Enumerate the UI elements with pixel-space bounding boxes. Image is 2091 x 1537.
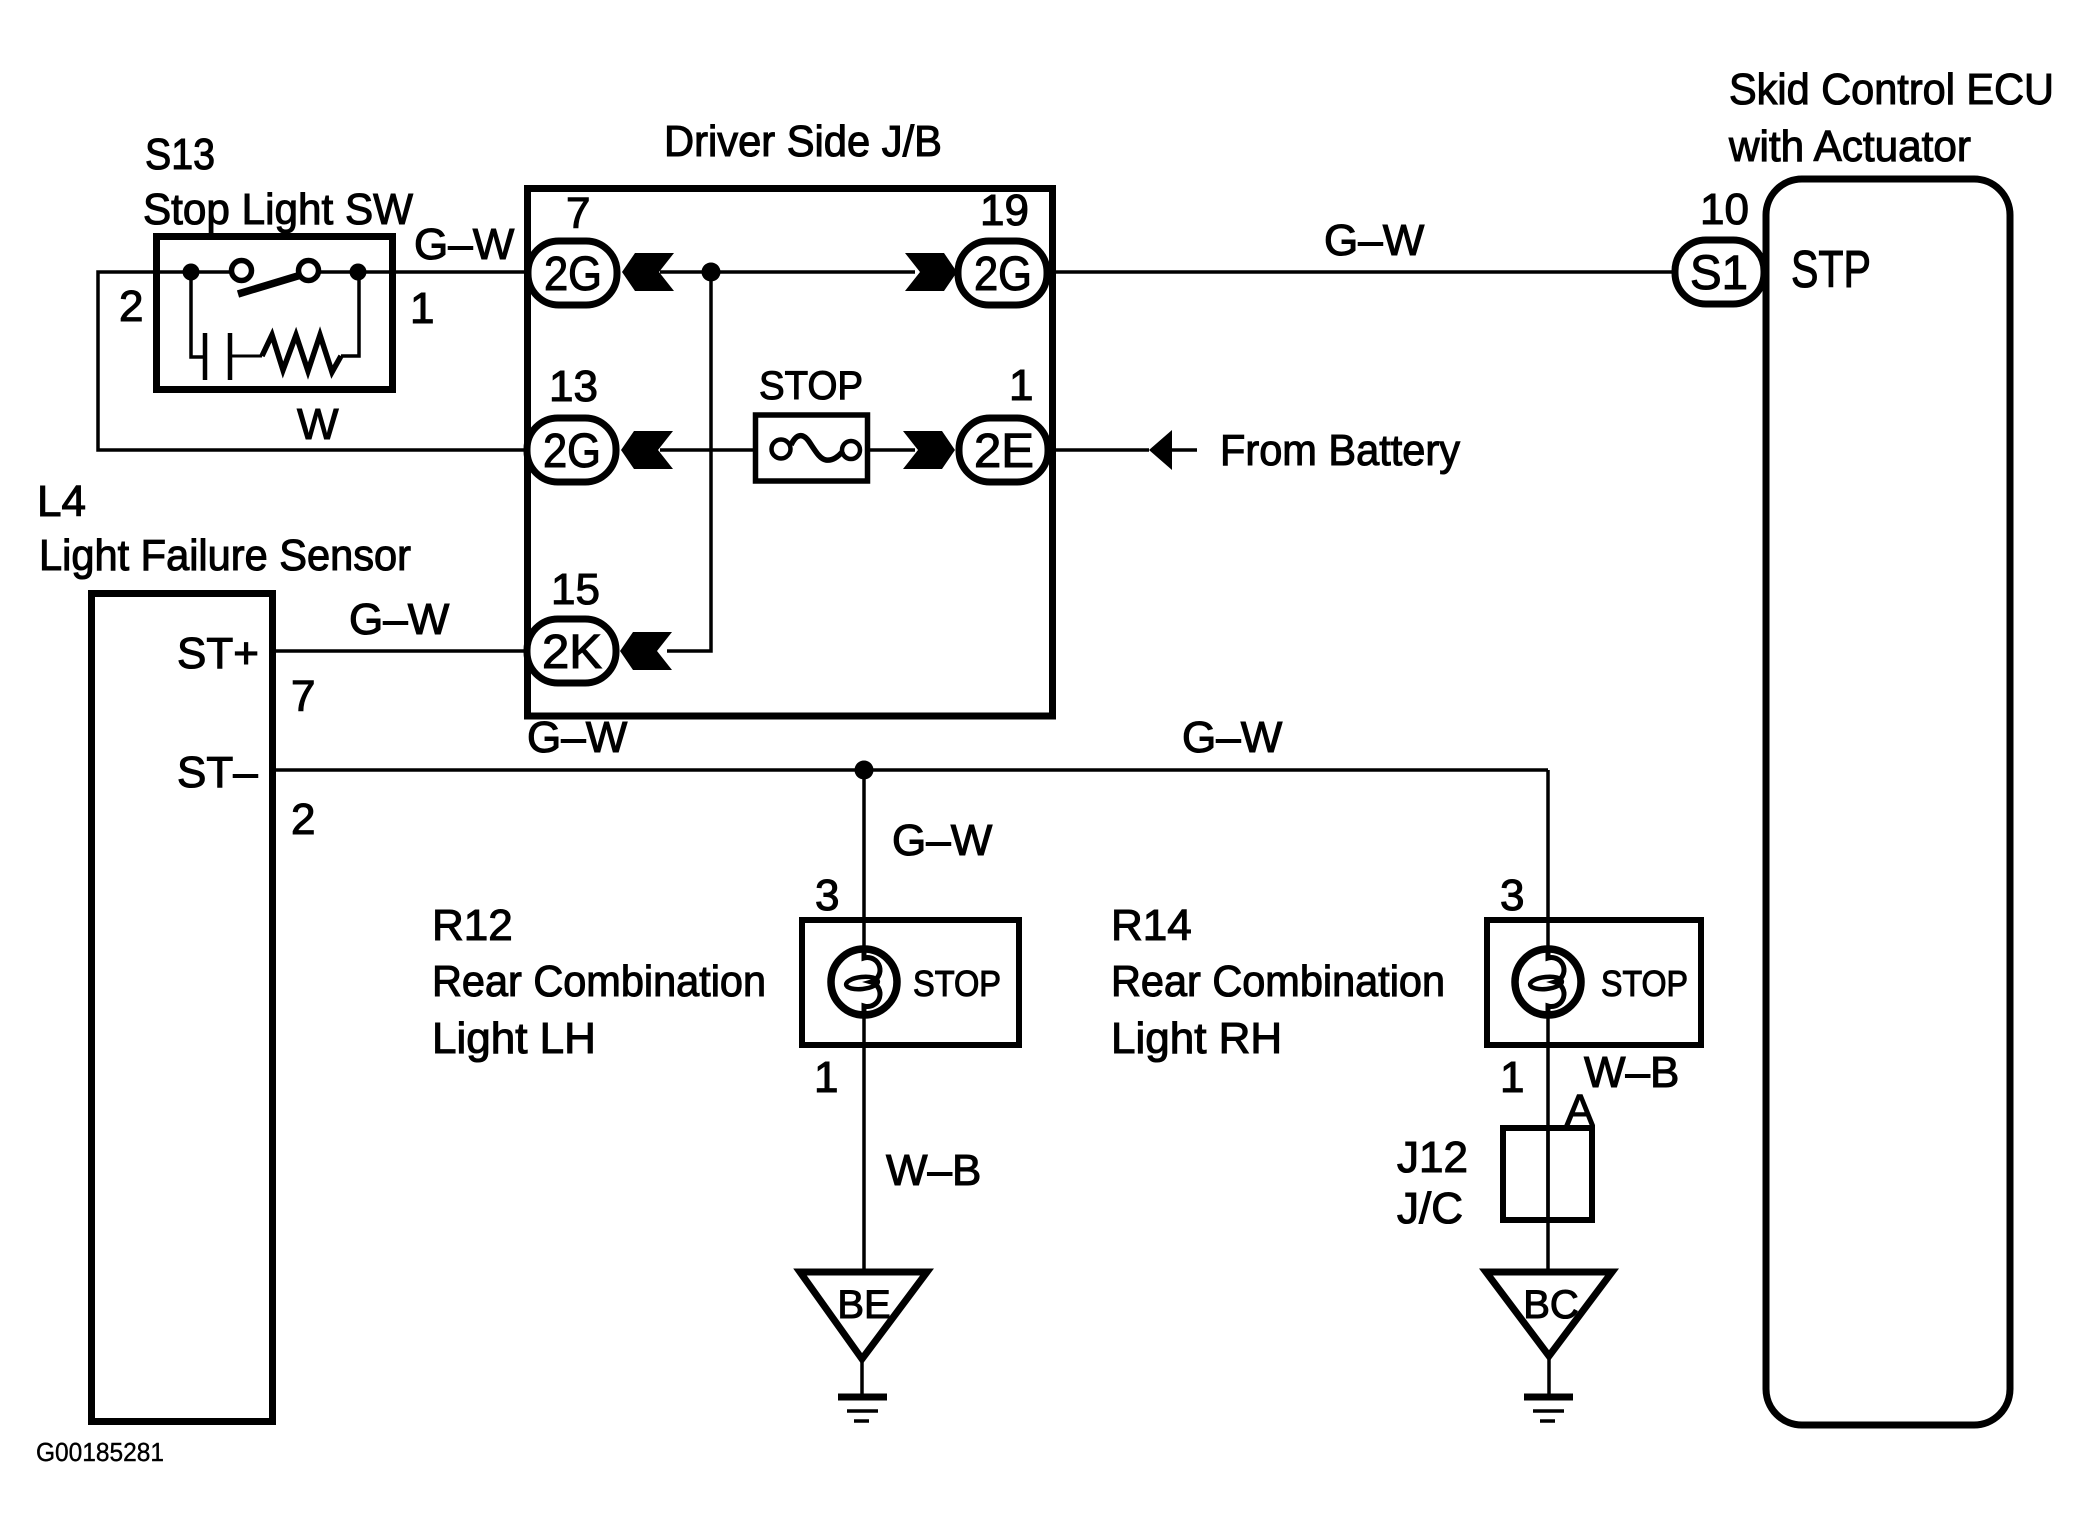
svg-text:2: 2 bbox=[119, 282, 143, 331]
arrow into 2E bbox=[903, 431, 955, 469]
svg-text:STP: STP bbox=[1791, 241, 1871, 299]
svg-text:1: 1 bbox=[1009, 361, 1033, 410]
lamp bulb R14 bbox=[1515, 949, 1581, 1015]
arrow into 2K bbox=[620, 632, 672, 670]
svg-text:J12: J12 bbox=[1397, 1133, 1468, 1182]
svg-text:Stop Light SW: Stop Light SW bbox=[143, 185, 413, 234]
wire 2G19 to S1 bbox=[1048, 270, 1676, 274]
svg-text:2G: 2G bbox=[974, 248, 1032, 301]
svg-text:G–W: G–W bbox=[892, 816, 993, 865]
svg-text:2E: 2E bbox=[974, 425, 1034, 478]
label R14 Rear Combination Light RH bbox=[1111, 901, 1445, 1063]
ground triangle BC bbox=[1486, 1272, 1612, 1356]
arrow From Battery bbox=[1149, 430, 1172, 470]
svg-text:Driver Side J/B: Driver Side J/B bbox=[664, 117, 942, 166]
node junction ST- branch bbox=[855, 761, 874, 780]
svg-text:BE: BE bbox=[837, 1283, 890, 1327]
lamp box R14 bbox=[1487, 920, 1701, 1045]
fuse STOP bbox=[756, 415, 868, 481]
wire ST- main run bbox=[272, 768, 1548, 772]
svg-text:7: 7 bbox=[566, 189, 590, 238]
svg-text:with Actuator: with Actuator bbox=[1728, 122, 1971, 171]
svg-text:J/C: J/C bbox=[1397, 1184, 1463, 1233]
connector 2G pin 7 bbox=[528, 241, 617, 305]
wire branch down to R14 bbox=[1546, 770, 1550, 955]
svg-text:R14: R14 bbox=[1111, 901, 1192, 950]
svg-text:15: 15 bbox=[551, 565, 600, 614]
svg-text:R12: R12 bbox=[432, 901, 513, 950]
svg-text:L4: L4 bbox=[37, 477, 86, 526]
ground symbol BC bbox=[1524, 1356, 1573, 1421]
wire 2E to From Battery bbox=[1048, 448, 1149, 452]
wire row 13 inside J/B bbox=[660, 448, 760, 452]
svg-text:G–W: G–W bbox=[527, 713, 628, 762]
svg-text:2K: 2K bbox=[542, 626, 602, 679]
label J12 J/C bbox=[1397, 1133, 1468, 1233]
ground triangle BE bbox=[800, 1272, 927, 1359]
arrow into 2G7 bbox=[622, 253, 674, 291]
svg-text:ST+: ST+ bbox=[177, 629, 259, 678]
svg-text:BC: BC bbox=[1523, 1283, 1579, 1327]
svg-text:S13: S13 bbox=[145, 130, 215, 179]
resistor in S13 bbox=[232, 280, 359, 372]
svg-text:10: 10 bbox=[1700, 185, 1749, 234]
switch S13 box bbox=[157, 237, 393, 390]
svg-text:Light LH: Light LH bbox=[432, 1014, 596, 1063]
label L4 Light Failure Sensor bbox=[37, 477, 411, 580]
label S13 bbox=[143, 130, 413, 234]
svg-text:ST–: ST– bbox=[177, 748, 258, 797]
junction connector J12 J/C box bbox=[1503, 1128, 1592, 1220]
connector 2G pin 19 bbox=[958, 241, 1047, 305]
svg-text:3: 3 bbox=[815, 871, 839, 920]
node junction row 7 bbox=[702, 263, 721, 282]
svg-text:STOP: STOP bbox=[913, 963, 1001, 1004]
svg-text:Rear Combination: Rear Combination bbox=[432, 957, 766, 1006]
svg-text:7: 7 bbox=[291, 672, 315, 721]
svg-text:Rear Combination: Rear Combination bbox=[1111, 957, 1445, 1006]
arrow into 2G13 bbox=[621, 431, 673, 469]
wire branch down to R12 bbox=[862, 770, 866, 955]
label Skid Control ECU with Actuator bbox=[1728, 65, 2054, 171]
lamp bulb R12 bbox=[831, 949, 897, 1015]
junction block Driver Side J/B box bbox=[528, 189, 1053, 717]
svg-text:G00185281: G00185281 bbox=[36, 1437, 164, 1467]
switch S13 internals bbox=[157, 261, 392, 295]
svg-text:S1: S1 bbox=[1690, 247, 1748, 300]
svg-text:From Battery: From Battery bbox=[1220, 426, 1460, 475]
svg-text:1: 1 bbox=[1500, 1053, 1524, 1102]
svg-text:W–B: W–B bbox=[1584, 1048, 1679, 1097]
ground symbol BE bbox=[838, 1359, 887, 1421]
svg-text:G–W: G–W bbox=[1324, 216, 1425, 265]
svg-text:STOP: STOP bbox=[759, 364, 863, 408]
svg-text:1: 1 bbox=[814, 1053, 838, 1102]
connector 2G pin 13 bbox=[527, 418, 616, 482]
svg-text:Skid Control ECU: Skid Control ECU bbox=[1729, 65, 2054, 114]
svg-text:3: 3 bbox=[1500, 871, 1524, 920]
svg-text:G–W: G–W bbox=[414, 220, 515, 269]
wire ST+ to 2K bbox=[272, 649, 530, 653]
battery symbol in S13 bbox=[191, 280, 230, 380]
ECU box Skid Control ECU with Actuator bbox=[1766, 179, 2010, 1425]
L4 box Light Failure Sensor bbox=[92, 594, 273, 1422]
svg-text:W: W bbox=[297, 400, 339, 449]
connector S1 pin 10 bbox=[1675, 240, 1764, 304]
wire pin1 S13 to 2G7 bbox=[392, 270, 530, 274]
svg-text:G–W: G–W bbox=[349, 595, 450, 644]
wire branch junction to 2K bbox=[667, 272, 711, 651]
svg-text:Light Failure Sensor: Light Failure Sensor bbox=[39, 531, 411, 580]
arrow into 2G19 bbox=[905, 253, 957, 291]
svg-text:W–B: W–B bbox=[886, 1146, 981, 1195]
svg-text:STOP: STOP bbox=[1601, 963, 1688, 1004]
wire R12 to BE ground bbox=[862, 1008, 866, 1272]
connector 2E pin 1 bbox=[959, 418, 1048, 482]
connector 2K pin 15 bbox=[527, 619, 616, 683]
svg-text:Light RH: Light RH bbox=[1111, 1014, 1282, 1063]
svg-text:13: 13 bbox=[549, 362, 598, 411]
svg-text:G–W: G–W bbox=[1182, 713, 1283, 762]
wire through J12 bbox=[1546, 1128, 1550, 1220]
wire pin2 S13 W route bbox=[98, 272, 530, 450]
svg-text:2: 2 bbox=[291, 795, 315, 844]
svg-text:2G: 2G bbox=[544, 248, 602, 301]
wire R14 to BC ground bbox=[1546, 1008, 1550, 1272]
lamp box R12 bbox=[802, 920, 1019, 1045]
svg-text:2G: 2G bbox=[543, 425, 601, 478]
label R12 Rear Combination Light LH bbox=[432, 901, 766, 1063]
wire row 7 inside J/B bbox=[660, 270, 915, 274]
svg-text:1: 1 bbox=[410, 284, 434, 333]
svg-text:19: 19 bbox=[980, 186, 1029, 235]
